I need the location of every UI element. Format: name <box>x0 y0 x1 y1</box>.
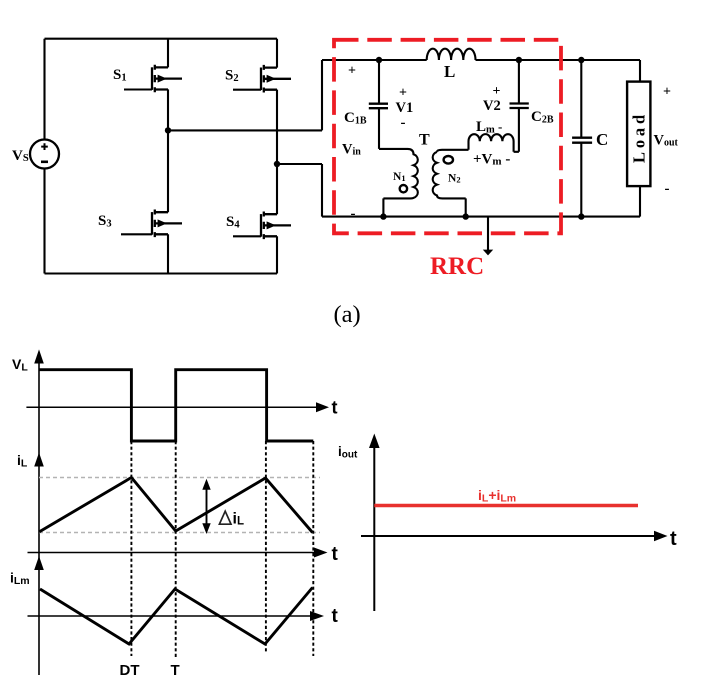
wire left branch lower (Vs to bottom rail) <box>43 169 45 274</box>
wire top net inductor to load corner <box>476 60 641 82</box>
wire load bottom lead <box>639 186 641 217</box>
svg-text:t: t <box>670 528 677 550</box>
svg-text:t: t <box>332 398 338 418</box>
gridline dashed lower iL level <box>39 532 320 534</box>
ground arrow <box>487 217 489 250</box>
svg-text:S1: S1 <box>113 67 127 84</box>
waveform iL triangle wave <box>39 478 313 533</box>
svg-text:-: - <box>351 206 356 222</box>
axis iout time <box>361 535 655 537</box>
svg-text:iL: iL <box>233 511 244 528</box>
wire bridge lower output to RRC <box>277 164 322 217</box>
resistor Load box <box>627 82 650 187</box>
svg-text:Lm -: Lm - <box>476 119 502 136</box>
svg-text:DT: DT <box>120 662 140 679</box>
axis iLm time <box>28 615 312 617</box>
node bridge lower output junction <box>274 161 280 167</box>
wire S3 gate lead <box>121 233 152 235</box>
axis VL time <box>26 406 317 408</box>
node output cap top junction <box>578 57 584 63</box>
wire S1-S3 column <box>167 39 169 274</box>
axis iL vertical arrowhead <box>34 453 44 467</box>
svg-text:+Vm -: +Vm - <box>473 152 510 168</box>
svg-text:t: t <box>332 606 339 627</box>
svg-text:+: + <box>493 84 501 99</box>
svg-text:S3: S3 <box>98 213 112 230</box>
svg-text:t: t <box>332 544 339 565</box>
svg-text:C: C <box>596 130 608 149</box>
inductor Lm <box>469 134 514 152</box>
wire bottom rail of RRC and output <box>322 216 640 218</box>
RRC boundary dashed box <box>334 40 561 234</box>
svg-text:RRC: RRC <box>430 253 484 280</box>
svg-text:Load: Load <box>629 111 648 163</box>
capacitor C1B <box>369 60 388 149</box>
svg-text:N1: N1 <box>393 171 406 183</box>
transformer T primary winding N1 <box>379 149 418 217</box>
wire bridge upper output to RRC <box>168 60 322 130</box>
transistor S2 <box>261 65 291 93</box>
transistor S4 <box>261 212 291 240</box>
axis VL vertical arrowhead <box>34 349 44 363</box>
node top wire left junction <box>376 57 382 63</box>
svg-text:V1: V1 <box>396 100 414 116</box>
transistor S3 <box>152 210 182 238</box>
svg-text:(a): (a) <box>334 301 361 328</box>
wire left branch upper (Vs to top rail) <box>43 39 45 140</box>
waveform VL square wave <box>39 370 313 441</box>
gridline dotted vertical T+DT <box>265 441 267 652</box>
waveform iout constant red line <box>374 504 638 507</box>
svg-text:iout: iout <box>338 444 358 461</box>
capacitor C2B <box>510 60 529 152</box>
wire S4 gate lead <box>233 235 261 237</box>
gridline dotted vertical DT <box>130 441 132 656</box>
svg-text:V2: V2 <box>483 98 501 114</box>
svg-text:S2: S2 <box>225 67 239 84</box>
wire S2 gate lead <box>233 89 261 91</box>
annotation delta-iL arrow <box>202 479 244 534</box>
svg-text:+: + <box>663 85 671 100</box>
axis iLm vertical arrowhead <box>34 556 44 570</box>
node bridge upper output junction <box>165 127 171 133</box>
polarity dot N1 <box>400 185 407 192</box>
svg-text:C2B: C2B <box>531 109 554 126</box>
svg-text:iLm: iLm <box>10 570 30 588</box>
svg-text:Vin: Vin <box>342 142 361 158</box>
axis vertical left waveform column <box>38 356 40 675</box>
gridline dashed upper iL level <box>39 477 320 479</box>
wire top rail of bridge <box>45 38 278 40</box>
svg-text:N2: N2 <box>448 173 461 185</box>
gridline dotted vertical T <box>175 441 177 657</box>
svg-text:+: + <box>399 86 407 101</box>
node top wire right junction <box>516 57 522 63</box>
transformer T secondary winding N2 <box>433 150 469 217</box>
axis iL time <box>28 552 316 554</box>
capacitor C <box>572 60 592 217</box>
svg-text:VL: VL <box>12 356 28 374</box>
svg-text:C1B: C1B <box>344 110 367 127</box>
wire bottom rail of bridge <box>45 272 278 274</box>
svg-text:iL+iLm: iL+iLm <box>478 487 516 505</box>
svg-text:VS: VS <box>12 148 29 164</box>
transistor S1 <box>152 65 182 93</box>
svg-text:iL: iL <box>17 452 28 470</box>
inductor L <box>427 49 476 60</box>
wire top net Vin+ to inductor <box>322 59 427 61</box>
svg-text:L: L <box>444 62 455 81</box>
svg-text:+: + <box>348 64 356 79</box>
axis iout vertical <box>373 444 375 611</box>
svg-text:T: T <box>419 132 430 149</box>
voltage source Vs <box>30 140 59 169</box>
svg-text:T: T <box>171 662 180 679</box>
svg-text:Vout: Vout <box>654 133 679 149</box>
wire S1 gate lead <box>124 88 152 90</box>
svg-text:-: - <box>665 181 670 197</box>
node bottom rail junction right <box>463 213 469 219</box>
svg-text:-: - <box>401 115 406 131</box>
waveform iLm triangle wave <box>40 588 313 645</box>
node output cap bottom junction <box>578 213 584 219</box>
svg-text:S4: S4 <box>226 214 240 231</box>
gridline dotted vertical 2T <box>312 441 314 656</box>
polarity dot N2 <box>444 156 453 164</box>
node bottom rail junction left <box>380 213 386 219</box>
wire S2-S4 column <box>276 39 278 274</box>
